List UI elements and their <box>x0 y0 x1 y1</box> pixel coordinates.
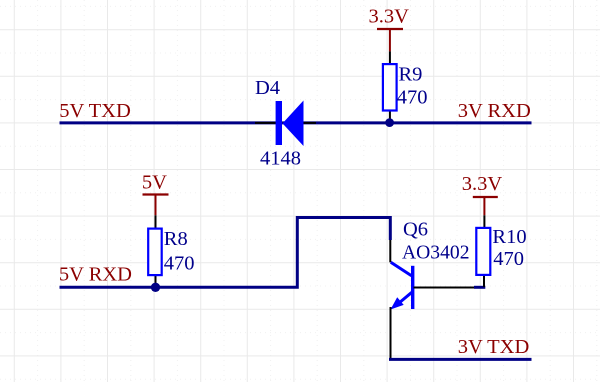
svg-text:470: 470 <box>164 253 195 275</box>
svg-text:Q6: Q6 <box>403 218 428 240</box>
diode D4 pin 1 (right, anode pin) <box>304 122 317 124</box>
svg-text:5V: 5V <box>142 171 167 193</box>
svg-text:3.3V: 3.3V <box>462 173 503 195</box>
svg-text:AO3402: AO3402 <box>402 242 470 264</box>
wire 5V RXD run to Q6 gate <box>60 218 391 288</box>
power port 3.3V (right) <box>473 197 498 215</box>
junction node R9 / top wire <box>385 118 394 127</box>
svg-text:4148: 4148 <box>260 147 301 169</box>
svg-text:R9: R9 <box>399 64 423 86</box>
resistor R10 <box>476 228 490 275</box>
svg-text:3.3V: 3.3V <box>369 6 410 28</box>
svg-text:R8: R8 <box>164 228 188 250</box>
svg-text:5V RXD: 5V RXD <box>59 264 132 286</box>
svg-text:470: 470 <box>397 86 428 108</box>
svg-text:3V RXD: 3V RXD <box>458 100 531 122</box>
wire Q6 drain to R10 <box>474 286 485 289</box>
resistor R9 <box>383 64 397 110</box>
power port 3.3V (top) <box>377 29 403 51</box>
power port 5V <box>143 195 169 216</box>
diode D4 <box>276 101 304 147</box>
resistor R8 pin 1 (top) <box>155 215 157 228</box>
resistor R8 <box>148 229 162 276</box>
transistor Q6 <box>391 262 415 309</box>
svg-text:5V TXD: 5V TXD <box>59 100 131 122</box>
svg-text:3V TXD: 3V TXD <box>458 336 530 358</box>
resistor R8 pin 2 (bottom) <box>155 276 157 286</box>
wire 3V TXD (bottom) <box>389 358 532 361</box>
svg-text:470: 470 <box>493 248 524 270</box>
transistor Q6 source pin <box>390 307 392 359</box>
resistor R9 pin 1 (top) <box>389 51 391 63</box>
transistor Q6 drain pin <box>414 287 476 289</box>
transistor Q6 gate pin <box>389 240 391 262</box>
resistor R10 pin 1 (top) <box>483 215 485 227</box>
svg-text:D4: D4 <box>255 77 280 99</box>
resistor R9 pin 2 (bottom) <box>389 112 391 121</box>
diode D4 pin 2 (left, cathode pin) <box>255 122 276 124</box>
junction node R8 / 5V RXD wire <box>151 283 160 292</box>
resistor R10 pin 2 (bottom) <box>483 276 485 287</box>
svg-text:R10: R10 <box>492 226 526 248</box>
wire top 5V TXD to 3V RXD <box>60 121 532 124</box>
